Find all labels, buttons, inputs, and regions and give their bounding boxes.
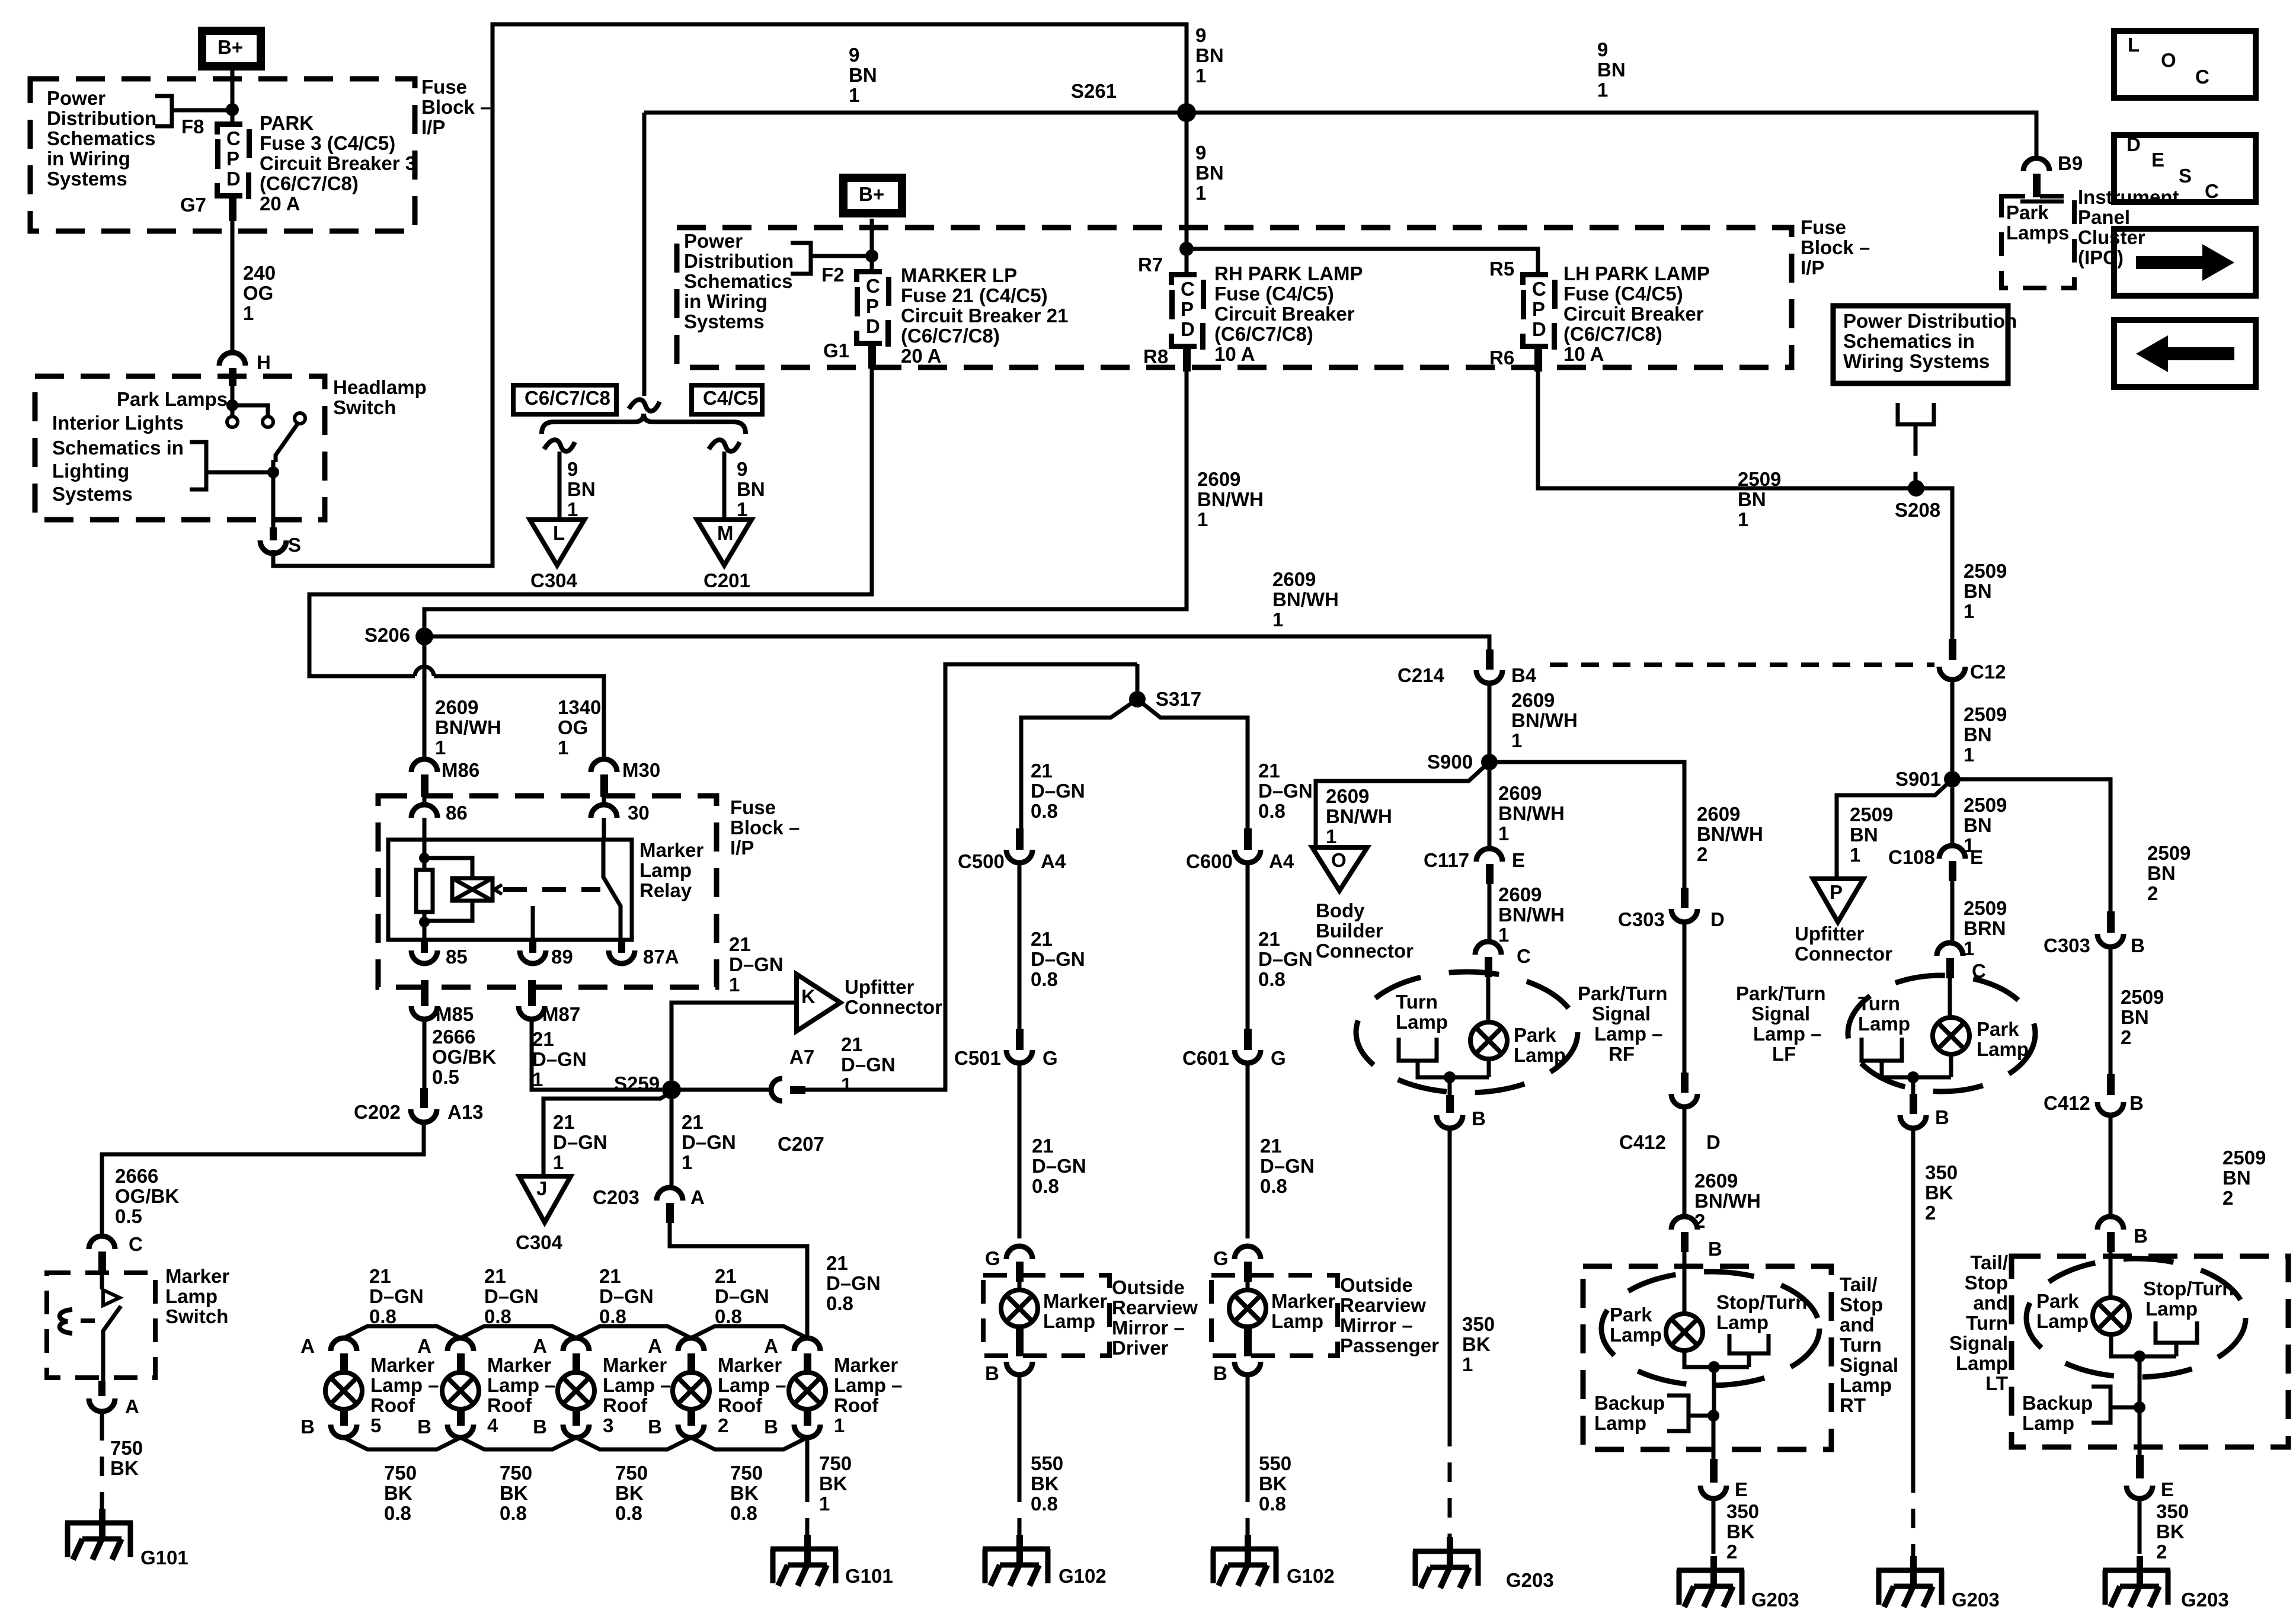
svg-text:21: 21 xyxy=(369,1265,391,1287)
svg-text:G203: G203 xyxy=(1506,1569,1554,1591)
svg-text:D: D xyxy=(226,168,241,190)
svg-text:A4: A4 xyxy=(1041,850,1066,872)
svg-text:D: D xyxy=(1181,318,1195,340)
svg-text:Lamp: Lamp xyxy=(1858,1013,1910,1035)
svg-text:Signal: Signal xyxy=(1949,1332,2008,1354)
svg-text:BN: BN xyxy=(849,64,877,86)
svg-text:Connector: Connector xyxy=(1795,943,1892,965)
svg-text:LT: LT xyxy=(1985,1372,2008,1394)
svg-text:F8: F8 xyxy=(181,116,204,137)
svg-text:Fuse: Fuse xyxy=(1801,216,1846,238)
svg-text:Backup: Backup xyxy=(1594,1392,1665,1414)
svg-text:2609: 2609 xyxy=(1498,782,1542,804)
svg-text:2: 2 xyxy=(1697,843,1707,865)
svg-text:LH PARK LAMP: LH PARK LAMP xyxy=(1563,263,1710,284)
svg-text:1: 1 xyxy=(849,84,859,106)
svg-text:Circuit Breaker 21: Circuit Breaker 21 xyxy=(901,305,1068,327)
svg-text:1: 1 xyxy=(1964,744,1974,766)
svg-text:D: D xyxy=(866,315,880,337)
svg-text:BRN: BRN xyxy=(1964,917,2006,939)
svg-text:BN/WH: BN/WH xyxy=(1498,904,1565,926)
svg-text:Schematics in: Schematics in xyxy=(1843,330,1975,352)
svg-text:21: 21 xyxy=(826,1252,848,1274)
svg-text:Lamp –: Lamp – xyxy=(487,1374,556,1396)
svg-text:B: B xyxy=(2131,934,2145,956)
svg-text:1: 1 xyxy=(1498,924,1509,946)
svg-text:G101: G101 xyxy=(140,1547,188,1569)
svg-text:G7: G7 xyxy=(180,194,206,216)
svg-text:1: 1 xyxy=(737,498,747,520)
svg-text:1: 1 xyxy=(1850,844,1860,866)
svg-text:Lamps: Lamps xyxy=(2006,222,2069,244)
svg-text:C: C xyxy=(2205,180,2219,202)
svg-text:G101: G101 xyxy=(845,1565,893,1587)
svg-text:C500: C500 xyxy=(958,850,1005,872)
svg-text:85: 85 xyxy=(446,946,468,968)
svg-text:J: J xyxy=(536,1177,547,1199)
svg-text:2: 2 xyxy=(2156,1541,2167,1563)
svg-text:B: B xyxy=(300,1416,315,1438)
svg-text:Turn: Turn xyxy=(1840,1334,1882,1356)
svg-text:D: D xyxy=(1706,1131,1721,1153)
svg-text:A: A xyxy=(648,1335,662,1357)
svg-text:350: 350 xyxy=(2156,1500,2189,1522)
svg-text:2: 2 xyxy=(1726,1541,1737,1563)
svg-text:1: 1 xyxy=(532,1068,543,1090)
svg-text:1: 1 xyxy=(435,737,446,758)
svg-text:21: 21 xyxy=(532,1028,554,1050)
svg-text:2509: 2509 xyxy=(1964,703,2007,725)
svg-text:(C6/C7/C8): (C6/C7/C8) xyxy=(901,325,1000,347)
svg-text:1: 1 xyxy=(1738,508,1748,530)
svg-text:Fuse: Fuse xyxy=(421,76,467,98)
svg-text:2609: 2609 xyxy=(1326,785,1369,807)
svg-text:2509: 2509 xyxy=(1964,794,2007,816)
svg-text:P: P xyxy=(866,295,879,317)
svg-text:1: 1 xyxy=(1964,600,1974,622)
svg-text:Mirror –: Mirror – xyxy=(1340,1314,1413,1336)
svg-text:Body: Body xyxy=(1316,900,1365,921)
svg-text:89: 89 xyxy=(551,946,573,968)
svg-text:2509: 2509 xyxy=(1738,468,1781,490)
svg-text:Cluster: Cluster xyxy=(2078,226,2145,248)
svg-text:21: 21 xyxy=(841,1033,863,1055)
svg-text:Park: Park xyxy=(2036,1290,2079,1312)
svg-text:1: 1 xyxy=(682,1151,692,1173)
svg-text:Park: Park xyxy=(1514,1024,1556,1046)
svg-text:Circuit Breaker: Circuit Breaker xyxy=(1563,303,1704,325)
svg-text:C: C xyxy=(1181,278,1195,300)
svg-text:Instrument: Instrument xyxy=(2078,186,2179,208)
svg-text:240: 240 xyxy=(243,262,276,284)
svg-text:M87: M87 xyxy=(542,1003,580,1025)
svg-text:9: 9 xyxy=(849,44,859,66)
svg-text:BK: BK xyxy=(1259,1473,1287,1494)
svg-text:C: C xyxy=(866,275,880,297)
svg-text:750: 750 xyxy=(500,1462,532,1484)
svg-text:20 A: 20 A xyxy=(901,345,941,367)
svg-text:BN/WH: BN/WH xyxy=(435,716,501,738)
svg-text:1: 1 xyxy=(819,1493,830,1515)
svg-text:RT: RT xyxy=(1840,1394,1866,1416)
svg-text:9: 9 xyxy=(1195,142,1206,164)
svg-text:Signal: Signal xyxy=(1751,1003,1810,1025)
svg-text:C: C xyxy=(1532,278,1546,300)
svg-text:BN: BN xyxy=(2121,1006,2149,1028)
svg-text:A7: A7 xyxy=(789,1046,814,1068)
svg-text:1: 1 xyxy=(1462,1353,1473,1375)
svg-text:LF: LF xyxy=(1772,1043,1796,1065)
svg-text:350: 350 xyxy=(1726,1500,1759,1522)
svg-text:I/P: I/P xyxy=(421,116,445,138)
svg-text:2609: 2609 xyxy=(435,696,478,718)
svg-text:Turn: Turn xyxy=(1966,1312,2008,1334)
svg-text:0.8: 0.8 xyxy=(484,1305,511,1327)
svg-text:Turn: Turn xyxy=(1396,991,1438,1013)
svg-text:21: 21 xyxy=(1031,760,1053,782)
svg-text:D: D xyxy=(1532,318,1546,340)
svg-text:Lamp –: Lamp – xyxy=(1594,1023,1663,1045)
svg-text:MARKER LP: MARKER LP xyxy=(901,264,1017,286)
svg-text:Circuit Breaker: Circuit Breaker xyxy=(1214,303,1355,325)
svg-text:1: 1 xyxy=(1195,65,1206,87)
svg-text:C501: C501 xyxy=(954,1047,1001,1069)
svg-text:Lamp –: Lamp – xyxy=(603,1374,671,1396)
svg-text:Fuse (C4/C5): Fuse (C4/C5) xyxy=(1214,283,1334,305)
svg-text:C303: C303 xyxy=(1618,908,1665,930)
svg-text:BN: BN xyxy=(1195,44,1224,66)
svg-text:9: 9 xyxy=(1195,24,1206,46)
svg-text:Stop/Turn: Stop/Turn xyxy=(2143,1278,2234,1299)
svg-text:BK: BK xyxy=(2156,1521,2185,1542)
svg-text:Interior Lights: Interior Lights xyxy=(52,412,184,434)
svg-text:OG: OG xyxy=(243,282,273,304)
svg-text:2509: 2509 xyxy=(2147,842,2191,864)
svg-text:10 A: 10 A xyxy=(1214,343,1255,365)
svg-text:BK: BK xyxy=(1462,1333,1491,1355)
svg-text:BK: BK xyxy=(384,1482,412,1504)
svg-text:BN: BN xyxy=(1597,59,1626,81)
svg-text:Marker: Marker xyxy=(370,1354,434,1376)
svg-text:Power: Power xyxy=(47,87,105,109)
svg-text:Lamp: Lamp xyxy=(1514,1044,1566,1066)
svg-text:L: L xyxy=(553,522,565,544)
svg-text:Block –: Block – xyxy=(1801,236,1870,258)
svg-text:C: C xyxy=(2195,66,2209,88)
svg-text:0.8: 0.8 xyxy=(715,1305,742,1327)
svg-text:Outside: Outside xyxy=(1340,1274,1413,1296)
svg-text:1: 1 xyxy=(558,737,568,758)
svg-text:B: B xyxy=(985,1362,999,1384)
svg-text:P: P xyxy=(1830,881,1843,903)
svg-text:PARK: PARK xyxy=(260,112,314,134)
svg-text:Lamp: Lamp xyxy=(1956,1352,2008,1374)
svg-text:BN/WH: BN/WH xyxy=(1511,709,1578,731)
svg-text:R6: R6 xyxy=(1489,347,1514,369)
svg-text:B+: B+ xyxy=(218,36,243,58)
svg-text:Lamp –: Lamp – xyxy=(718,1374,786,1396)
svg-text:B: B xyxy=(533,1416,547,1438)
svg-text:M86: M86 xyxy=(442,759,479,781)
svg-text:BN/WH: BN/WH xyxy=(1197,488,1264,510)
svg-text:BK: BK xyxy=(500,1482,528,1504)
svg-text:O: O xyxy=(1331,849,1347,871)
svg-text:BK: BK xyxy=(1726,1521,1755,1542)
svg-text:0.8: 0.8 xyxy=(1258,968,1285,990)
svg-text:0.8: 0.8 xyxy=(1031,1493,1058,1515)
svg-text:Block –: Block – xyxy=(730,817,800,838)
svg-text:9: 9 xyxy=(567,458,578,480)
svg-text:1: 1 xyxy=(1326,825,1336,847)
svg-text:0.8: 0.8 xyxy=(730,1502,757,1524)
svg-text:A: A xyxy=(533,1335,547,1357)
svg-text:0.8: 0.8 xyxy=(615,1502,642,1524)
svg-text:B: B xyxy=(1213,1362,1227,1384)
svg-text:3: 3 xyxy=(603,1414,613,1436)
svg-text:Lamp: Lamp xyxy=(2022,1412,2074,1434)
svg-text:BN: BN xyxy=(1964,580,1992,602)
svg-text:21: 21 xyxy=(599,1265,621,1287)
svg-text:0.8: 0.8 xyxy=(1258,800,1285,822)
svg-text:Headlamp: Headlamp xyxy=(333,376,427,398)
svg-text:Distribution: Distribution xyxy=(684,250,794,272)
svg-text:A: A xyxy=(764,1335,778,1357)
svg-text:BN/WH: BN/WH xyxy=(1694,1190,1761,1212)
svg-text:2666: 2666 xyxy=(432,1026,475,1048)
svg-text:S900: S900 xyxy=(1427,751,1473,773)
svg-text:B: B xyxy=(2129,1092,2144,1114)
svg-text:Turn: Turn xyxy=(1858,993,1900,1014)
svg-text:Marker: Marker xyxy=(1271,1290,1335,1312)
svg-text:BN: BN xyxy=(737,478,765,500)
svg-text:750: 750 xyxy=(615,1462,648,1484)
svg-text:G102: G102 xyxy=(1287,1565,1335,1587)
svg-text:F2: F2 xyxy=(821,264,845,286)
svg-text:Park Lamps: Park Lamps xyxy=(117,388,228,410)
svg-text:C304: C304 xyxy=(516,1231,563,1253)
svg-text:E: E xyxy=(2161,1478,2174,1500)
svg-text:D–GN: D–GN xyxy=(729,953,784,975)
svg-text:Park: Park xyxy=(2006,201,2049,223)
svg-text:2: 2 xyxy=(2121,1026,2131,1048)
svg-text:A: A xyxy=(690,1186,705,1208)
svg-text:21: 21 xyxy=(1260,1135,1282,1157)
svg-text:E: E xyxy=(1970,846,1983,868)
svg-text:Systems: Systems xyxy=(684,311,765,332)
svg-text:B: B xyxy=(1935,1106,1949,1128)
svg-text:750: 750 xyxy=(110,1437,143,1459)
svg-text:Lamp: Lamp xyxy=(165,1285,218,1307)
svg-text:M85: M85 xyxy=(436,1003,474,1025)
svg-text:C4/C5: C4/C5 xyxy=(703,387,759,409)
svg-text:Systems: Systems xyxy=(52,483,133,505)
svg-text:BN: BN xyxy=(567,478,596,500)
svg-text:Block –: Block – xyxy=(421,96,491,118)
svg-text:0.8: 0.8 xyxy=(826,1292,853,1314)
svg-text:Wiring Systems: Wiring Systems xyxy=(1843,350,1990,372)
svg-text:Connector: Connector xyxy=(1316,940,1414,962)
svg-text:Lamp: Lamp xyxy=(1594,1412,1646,1434)
svg-text:0.8: 0.8 xyxy=(1032,1175,1059,1197)
svg-text:Signal: Signal xyxy=(1840,1354,1898,1376)
svg-text:A: A xyxy=(417,1335,431,1357)
svg-text:G102: G102 xyxy=(1059,1565,1107,1587)
svg-text:G1: G1 xyxy=(823,340,849,361)
svg-text:21: 21 xyxy=(1031,928,1053,950)
svg-text:(IPC): (IPC) xyxy=(2078,247,2124,268)
svg-text:Lamp: Lamp xyxy=(639,859,692,881)
svg-text:Lamp: Lamp xyxy=(1610,1324,1662,1346)
svg-text:9: 9 xyxy=(1597,39,1608,60)
svg-text:BK: BK xyxy=(730,1482,759,1504)
svg-text:P: P xyxy=(1181,298,1194,320)
svg-text:2609: 2609 xyxy=(1272,568,1316,590)
svg-text:2609: 2609 xyxy=(1498,884,1542,905)
svg-text:D–GN: D–GN xyxy=(553,1131,607,1153)
svg-text:9: 9 xyxy=(737,458,747,480)
svg-text:C600: C600 xyxy=(1186,850,1233,872)
svg-text:0.8: 0.8 xyxy=(369,1305,396,1327)
svg-text:C412: C412 xyxy=(2044,1092,2090,1114)
svg-text:750: 750 xyxy=(384,1462,417,1484)
svg-text:BN/WH: BN/WH xyxy=(1326,805,1392,827)
svg-text:2509: 2509 xyxy=(1964,897,2007,919)
svg-text:1: 1 xyxy=(243,302,254,324)
svg-text:5: 5 xyxy=(370,1414,381,1436)
svg-text:0.8: 0.8 xyxy=(1031,800,1058,822)
svg-text:1: 1 xyxy=(567,498,578,520)
svg-text:C203: C203 xyxy=(593,1186,639,1208)
svg-text:4: 4 xyxy=(487,1414,498,1436)
svg-text:Signal: Signal xyxy=(1592,1003,1651,1025)
svg-text:A: A xyxy=(300,1335,315,1357)
svg-text:BN: BN xyxy=(1195,162,1224,184)
svg-text:Lamp –: Lamp – xyxy=(834,1374,903,1396)
svg-text:Builder: Builder xyxy=(1316,920,1383,942)
svg-text:BN: BN xyxy=(1964,724,1992,745)
svg-text:D–GN: D–GN xyxy=(1031,948,1085,970)
svg-text:Marker: Marker xyxy=(165,1265,229,1287)
svg-text:Tail/: Tail/ xyxy=(1840,1273,1878,1295)
svg-text:D: D xyxy=(1710,908,1725,930)
svg-text:S: S xyxy=(2179,165,2192,187)
svg-text:M: M xyxy=(717,522,734,544)
svg-text:Lamp: Lamp xyxy=(1716,1311,1769,1333)
svg-text:86: 86 xyxy=(446,802,468,824)
svg-text:0.8: 0.8 xyxy=(384,1502,411,1524)
svg-text:1: 1 xyxy=(1597,79,1608,101)
svg-text:Marker: Marker xyxy=(1043,1290,1107,1312)
svg-text:R7: R7 xyxy=(1138,254,1163,276)
svg-text:G203: G203 xyxy=(1751,1589,1799,1610)
svg-text:Lamp: Lamp xyxy=(1043,1310,1095,1332)
svg-text:2: 2 xyxy=(1694,1210,1705,1232)
svg-text:Lamp: Lamp xyxy=(1977,1038,2029,1060)
svg-text:Lamp –: Lamp – xyxy=(370,1374,439,1396)
svg-text:BK: BK xyxy=(615,1482,644,1504)
svg-text:Power: Power xyxy=(684,230,743,252)
svg-text:Lamp –: Lamp – xyxy=(1753,1023,1822,1045)
svg-text:BN/WH: BN/WH xyxy=(1697,823,1763,845)
svg-text:BN: BN xyxy=(1738,488,1766,510)
svg-text:350: 350 xyxy=(1925,1161,1958,1183)
svg-text:0.8: 0.8 xyxy=(1259,1493,1286,1515)
svg-text:I/P: I/P xyxy=(1801,257,1824,279)
svg-text:in Wiring: in Wiring xyxy=(684,290,768,312)
svg-text:Distribution: Distribution xyxy=(47,107,156,129)
svg-text:2509: 2509 xyxy=(2223,1147,2266,1169)
svg-text:Stop: Stop xyxy=(1965,1272,2008,1294)
svg-text:D–GN: D–GN xyxy=(532,1048,587,1070)
svg-text:B: B xyxy=(764,1416,778,1438)
svg-text:C202: C202 xyxy=(354,1101,401,1123)
svg-text:P: P xyxy=(1532,298,1545,320)
svg-text:S259: S259 xyxy=(614,1073,660,1094)
svg-text:C: C xyxy=(1972,960,1986,982)
svg-text:2609: 2609 xyxy=(1694,1170,1738,1192)
svg-text:Tail/: Tail/ xyxy=(1970,1251,2008,1273)
svg-text:2666: 2666 xyxy=(115,1165,158,1187)
svg-text:BN: BN xyxy=(2223,1167,2251,1189)
svg-text:2609: 2609 xyxy=(1697,803,1740,825)
svg-text:Backup: Backup xyxy=(2022,1392,2093,1414)
svg-text:G203: G203 xyxy=(2181,1589,2229,1610)
svg-text:Fuse (C4/C5): Fuse (C4/C5) xyxy=(1563,283,1683,305)
svg-text:D–GN: D–GN xyxy=(715,1285,769,1307)
svg-text:0.5: 0.5 xyxy=(432,1066,459,1088)
svg-text:20 A: 20 A xyxy=(260,193,300,215)
svg-text:Panel: Panel xyxy=(2078,206,2130,228)
svg-text:750: 750 xyxy=(730,1462,763,1484)
svg-text:D–GN: D–GN xyxy=(369,1285,424,1307)
svg-text:E: E xyxy=(2151,149,2164,171)
svg-text:Switch: Switch xyxy=(333,396,396,418)
svg-text:Roof: Roof xyxy=(603,1394,648,1416)
svg-text:1: 1 xyxy=(1195,182,1206,204)
svg-text:1: 1 xyxy=(1498,822,1509,844)
svg-text:C601: C601 xyxy=(1182,1047,1229,1069)
svg-text:D–GN: D–GN xyxy=(841,1054,896,1076)
svg-text:C303: C303 xyxy=(2044,934,2090,956)
svg-text:Lamp: Lamp xyxy=(1840,1374,1892,1396)
svg-text:1: 1 xyxy=(834,1414,845,1436)
svg-text:Marker: Marker xyxy=(487,1354,551,1376)
svg-text:Systems: Systems xyxy=(47,168,127,190)
svg-text:S206: S206 xyxy=(364,624,410,646)
svg-text:OG: OG xyxy=(558,716,588,738)
svg-text:G: G xyxy=(1213,1247,1229,1269)
svg-text:350: 350 xyxy=(1462,1313,1495,1335)
svg-text:Fuse 3 (C4/C5): Fuse 3 (C4/C5) xyxy=(260,132,395,154)
svg-text:BK: BK xyxy=(1031,1473,1059,1494)
svg-text:C: C xyxy=(129,1233,143,1255)
svg-text:(C6/C7/C8): (C6/C7/C8) xyxy=(1563,323,1662,345)
svg-text:Roof: Roof xyxy=(370,1394,415,1416)
svg-text:B: B xyxy=(2134,1225,2148,1247)
svg-text:D–GN: D–GN xyxy=(1032,1155,1086,1177)
svg-text:Park/Turn: Park/Turn xyxy=(1578,982,1668,1004)
svg-text:S261: S261 xyxy=(1071,80,1117,102)
svg-text:Roof: Roof xyxy=(718,1394,763,1416)
svg-text:21: 21 xyxy=(553,1111,575,1133)
svg-text:BN: BN xyxy=(2147,862,2176,884)
svg-text:D–GN: D–GN xyxy=(1258,948,1313,970)
svg-text:Fuse 21 (C4/C5): Fuse 21 (C4/C5) xyxy=(901,284,1048,306)
svg-text:10 A: 10 A xyxy=(1563,343,1604,365)
svg-text:S208: S208 xyxy=(1895,499,1940,521)
svg-text:G: G xyxy=(1271,1047,1286,1069)
svg-text:C117: C117 xyxy=(1424,849,1469,871)
